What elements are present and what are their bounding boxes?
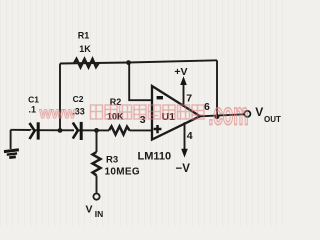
wire R2 to op-amp plus input <box>130 129 153 131</box>
svg-text:+V: +V <box>174 66 187 78</box>
node C1-C2 junction <box>58 128 63 133</box>
terminal VOUT <box>244 111 250 117</box>
svg-text:1K: 1K <box>79 44 91 54</box>
resistor R3 <box>93 130 101 193</box>
svg-text:OUT: OUT <box>264 115 281 124</box>
svg-text:7: 7 <box>186 93 192 105</box>
wire main input line <box>11 129 31 131</box>
wire inverting input branch <box>129 63 152 101</box>
op-amp minus sign <box>157 96 163 99</box>
watermark hanzi block <box>91 105 205 119</box>
wire output <box>200 114 244 116</box>
resistor R1 <box>74 59 99 67</box>
svg-text:R3: R3 <box>106 154 118 165</box>
svg-text:.com: .com <box>209 97 249 132</box>
svg-text:10MEG: 10MEG <box>105 167 140 178</box>
svg-text:.1: .1 <box>29 105 37 115</box>
wire right vertical feedback from output <box>216 60 218 117</box>
ground <box>4 130 20 160</box>
terminal VIN <box>93 194 99 200</box>
op-amp plus sign <box>154 125 162 133</box>
wire left vertical from top rail to C1-C2 node <box>59 64 61 131</box>
svg-text:10K: 10K <box>107 111 124 121</box>
op-amp U1 triangle <box>152 86 200 140</box>
wire C1 to C2 segment <box>35 129 74 131</box>
pin 7 supply arrow <box>180 76 187 105</box>
svg-text:V: V <box>86 204 93 216</box>
capacitor C2 <box>73 122 81 140</box>
svg-text:C2: C2 <box>73 94 84 104</box>
svg-text:IN: IN <box>95 209 104 219</box>
pin 4 supply arrow <box>181 122 188 157</box>
wire C2 to R2 segment <box>79 129 110 131</box>
label VOUT <box>255 105 281 124</box>
svg-text:www: www <box>39 105 77 122</box>
node R3 junction <box>94 128 99 133</box>
node top rail to inverting branch <box>126 60 131 65</box>
label VIN <box>86 204 104 219</box>
svg-text:4: 4 <box>187 130 193 142</box>
capacitor C1 <box>30 122 39 139</box>
svg-text:−V: −V <box>176 163 191 175</box>
svg-text:R1: R1 <box>78 30 90 40</box>
svg-text:C1: C1 <box>28 95 39 105</box>
svg-text:3: 3 <box>140 114 146 126</box>
svg-text:V: V <box>255 105 263 119</box>
resistor R2 <box>109 126 130 134</box>
svg-text:LM110: LM110 <box>138 151 172 163</box>
node output feedback junction <box>215 114 220 119</box>
wire top feedback rail <box>60 60 217 63</box>
